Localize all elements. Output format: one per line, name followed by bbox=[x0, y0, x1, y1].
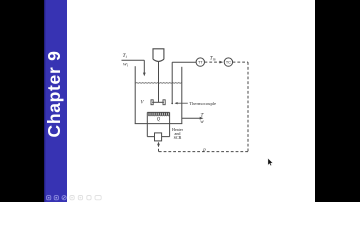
thermocouple label arrowhead bbox=[174, 102, 177, 104]
arrowhead into SCR bbox=[157, 142, 160, 146]
svg-text:T: T bbox=[201, 112, 205, 118]
arrowhead into TC bbox=[220, 61, 224, 64]
player control icons bbox=[47, 196, 102, 200]
controller TC circle bbox=[224, 58, 232, 66]
blue chapter band bbox=[44, 0, 67, 202]
tank left wall bbox=[134, 66, 136, 123]
thermocouple rod bbox=[171, 62, 173, 103]
thermocouple tip bbox=[171, 103, 173, 105]
stirrer shaft bbox=[158, 62, 160, 103]
inlet line horizontal bbox=[122, 59, 145, 61]
svg-text:Q: Q bbox=[157, 118, 161, 123]
svg-text:V: V bbox=[141, 100, 145, 105]
tank bottom bbox=[135, 123, 183, 125]
heater coil top line bbox=[147, 111, 169, 113]
transmitter TT circle bbox=[196, 58, 204, 66]
icon prev on blue bbox=[47, 196, 51, 200]
svg-text:w: w bbox=[200, 119, 204, 125]
svg-text:TC: TC bbox=[226, 61, 231, 65]
chapter 9 label bbox=[53, 94, 55, 96]
left black letterbox bar bbox=[0, 0, 44, 202]
liquid surface wavy line bbox=[135, 82, 182, 85]
icon next on blue bbox=[54, 196, 58, 200]
heater coil hatch bbox=[148, 112, 169, 116]
heater left lead bbox=[146, 112, 148, 136]
icon a on white bbox=[70, 196, 74, 200]
tank right wall bbox=[181, 67, 183, 124]
inlet arrowhead bbox=[143, 73, 146, 77]
dashed wire bottom to SCR bbox=[159, 151, 249, 153]
icon b on white bbox=[78, 196, 82, 200]
stirrer right paddle bbox=[163, 100, 165, 105]
motor housing bbox=[153, 49, 164, 62]
svg-text:p: p bbox=[202, 148, 206, 153]
icon pen on blue bbox=[62, 196, 66, 200]
stirrer crossbar bbox=[152, 101, 164, 103]
dashed wire down right side bbox=[247, 62, 249, 152]
svg-text:TT: TT bbox=[198, 61, 203, 65]
svg-text:Ti: Ti bbox=[123, 53, 127, 59]
svg-text:Tm: Tm bbox=[210, 56, 216, 62]
wire thermocouple to TT bbox=[172, 61, 196, 63]
svg-text:wi: wi bbox=[123, 62, 128, 68]
inlet line vertical bbox=[143, 60, 145, 73]
icon c on white bbox=[87, 196, 91, 200]
dashed wire up into SCR bbox=[158, 145, 160, 152]
mouse cursor bbox=[268, 158, 273, 166]
SCR box bbox=[155, 133, 162, 141]
right black letterbox bar bbox=[315, 0, 360, 202]
heater bottom wire bbox=[147, 136, 169, 138]
outlet arrowhead bbox=[200, 117, 204, 120]
dashed wire TC to corner bbox=[233, 61, 248, 63]
dashed wire TT to TC bbox=[205, 61, 220, 63]
outlet line bbox=[182, 117, 201, 119]
svg-text:SCR: SCR bbox=[174, 135, 182, 140]
thermocouple label leader line bbox=[177, 102, 188, 104]
icon menu on white bbox=[95, 196, 101, 200]
stirrer left paddle bbox=[151, 100, 153, 105]
heater right lead bbox=[169, 112, 171, 136]
svg-text:Thermocouple: Thermocouple bbox=[189, 101, 216, 106]
